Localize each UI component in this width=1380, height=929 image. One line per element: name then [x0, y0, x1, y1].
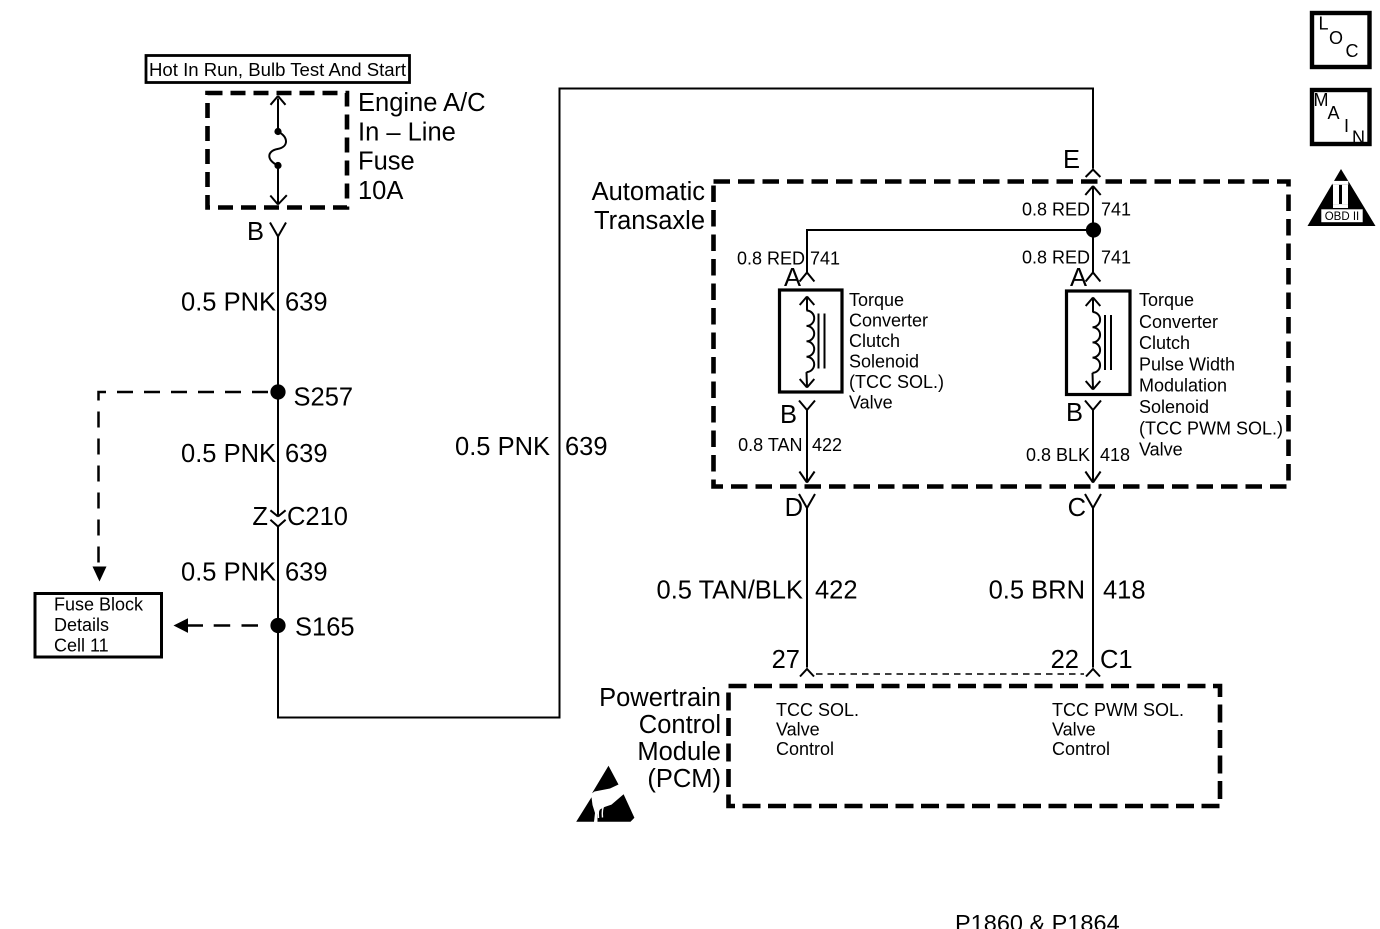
left solenoid pin A male connector — [800, 273, 815, 282]
svg-text:D: D — [785, 494, 803, 522]
svg-text:639: 639 — [565, 433, 608, 461]
svg-text:639: 639 — [285, 440, 328, 468]
svg-text:422: 422 — [812, 435, 842, 455]
svg-text:0.5 BRN: 0.5 BRN — [989, 577, 1085, 605]
svg-text:C: C — [1068, 494, 1086, 522]
MAIN legend icon — [1312, 90, 1370, 148]
svg-text:0.5 PNK: 0.5 PNK — [181, 440, 276, 468]
fuse value label: Engine A/C In-Line Fuse 10A — [358, 89, 486, 205]
TCC PWM solenoid coil L2 (box) — [1067, 291, 1131, 395]
wire: D down to PCM pin 27 (0.5 TAN/BLK 422) — [806, 508, 808, 668]
svg-text:B: B — [780, 401, 797, 429]
svg-text:0.8 RED: 0.8 RED — [1022, 200, 1090, 220]
PCM connector face dashed line — [816, 673, 1084, 675]
svg-text:0.5 PNK: 0.5 PNK — [181, 559, 276, 587]
svg-text:Hot In Run, Bulb Test And Star: Hot In Run, Bulb Test And Start — [149, 59, 407, 80]
svg-text:Powertrain: Powertrain — [599, 684, 721, 712]
svg-text:Control: Control — [639, 711, 721, 739]
wire: E into transaxle down to junction — [1085, 186, 1100, 272]
svg-text:Z: Z — [252, 503, 268, 531]
svg-text:L: L — [1319, 14, 1329, 34]
svg-text:TCC PWM SOL.: TCC PWM SOL. — [1052, 700, 1184, 720]
svg-text:741: 741 — [1101, 200, 1131, 220]
svg-text:Control: Control — [1052, 739, 1110, 759]
right solenoid pin B female connector — [1085, 401, 1101, 411]
svg-text:0.8 BLK: 0.8 BLK — [1026, 445, 1090, 465]
svg-text:Solenoid: Solenoid — [1139, 397, 1209, 417]
svg-text:Valve: Valve — [1052, 720, 1096, 740]
wire: branch from junction to left solenoid — [807, 230, 1093, 272]
TCC PWM solenoid coil element — [1086, 298, 1111, 390]
PCM name label — [599, 684, 721, 793]
svg-text:M: M — [1314, 90, 1329, 110]
svg-text:741: 741 — [810, 249, 840, 269]
svg-text:422: 422 — [815, 577, 858, 605]
svg-text:0.8 TAN: 0.8 TAN — [738, 435, 802, 455]
svg-text:639: 639 — [285, 559, 328, 587]
svg-text:S257: S257 — [294, 384, 354, 412]
PCM pin 27 connector — [800, 669, 814, 677]
svg-text:Cell 11: Cell 11 — [54, 636, 109, 656]
svg-text:Details: Details — [54, 615, 109, 635]
svg-text:(TCC PWM SOL.): (TCC PWM SOL.) — [1139, 418, 1283, 438]
pin D female connector — [799, 494, 815, 508]
fuse F1 element — [269, 96, 286, 205]
PCM input label: TCC PWM SOL. Valve Control — [1052, 700, 1184, 759]
junction node (splice) — [1086, 222, 1101, 237]
svg-text:Pulse Width: Pulse Width — [1139, 354, 1235, 374]
svg-text:Fuse: Fuse — [358, 148, 415, 176]
wire: long 0.5 PNK 639 feed from S165 around to transaxle pin E — [278, 89, 1093, 718]
svg-text:418: 418 — [1103, 577, 1146, 605]
TCC solenoid name label — [849, 290, 944, 413]
svg-text:I: I — [1344, 116, 1349, 136]
svg-text:N: N — [1352, 128, 1365, 148]
splice S165 — [270, 618, 285, 633]
svg-text:Modulation: Modulation — [1139, 376, 1227, 396]
svg-text:E: E — [1063, 146, 1080, 174]
svg-text:741: 741 — [1101, 248, 1131, 268]
svg-text:0.5 PNK: 0.5 PNK — [455, 433, 550, 461]
svg-text:Valve: Valve — [849, 393, 893, 413]
svg-text:Module: Module — [637, 738, 721, 766]
feed label box: Hot In Run, Bulb Test And Start — [146, 56, 410, 83]
svg-text:0.5 TAN/BLK: 0.5 TAN/BLK — [657, 577, 803, 605]
svg-text:Engine A/C: Engine A/C — [358, 89, 486, 117]
pin B female connector — [270, 223, 286, 237]
svg-text:Clutch: Clutch — [1139, 333, 1190, 353]
svg-text:In – Line: In – Line — [358, 118, 456, 146]
svg-text:Converter: Converter — [849, 311, 928, 331]
svg-text:A: A — [1070, 264, 1087, 292]
PCM dashed enclosure — [729, 686, 1221, 806]
svg-text:B: B — [247, 218, 264, 246]
TCC PWM solenoid name label — [1139, 290, 1283, 460]
left solenoid pin B female connector — [799, 401, 815, 411]
svg-text:27: 27 — [772, 646, 800, 674]
connector C210 pin Z — [252, 503, 348, 531]
svg-text:Automatic: Automatic — [592, 178, 706, 206]
svg-text:C: C — [1346, 41, 1359, 61]
svg-text:C210: C210 — [287, 503, 348, 531]
TCC solenoid coil element — [800, 297, 825, 388]
svg-text:Solenoid: Solenoid — [849, 352, 919, 372]
wire: left solenoid B down (0.8 TAN 422) — [799, 410, 814, 483]
svg-text:Clutch: Clutch — [849, 331, 900, 351]
svg-text:C1: C1 — [1100, 646, 1133, 674]
svg-text:OBD II: OBD II — [1325, 211, 1360, 223]
svg-text:Valve: Valve — [776, 720, 820, 740]
svg-text:TCC SOL.: TCC SOL. — [776, 700, 859, 720]
wire: right solenoid B down (0.8 BLK 418) — [1085, 410, 1100, 483]
svg-text:Valve: Valve — [1139, 440, 1183, 460]
svg-text:Converter: Converter — [1139, 312, 1218, 332]
svg-text:Torque: Torque — [1139, 290, 1194, 310]
ESD sensitivity icon (triangle with hand) — [576, 766, 634, 822]
dashed reference arrow from S165 to Fuse Block Details — [174, 618, 259, 633]
dashed reference arrow from S257 to Fuse Block Details — [93, 392, 269, 582]
svg-text:O: O — [1329, 28, 1343, 48]
svg-text:10A: 10A — [358, 177, 403, 205]
svg-text:Torque: Torque — [849, 290, 904, 310]
wire: C210 to S165 and down — [277, 527, 279, 719]
svg-text:A: A — [784, 264, 801, 292]
svg-text:639: 639 — [285, 289, 328, 317]
svg-text:Control: Control — [776, 739, 834, 759]
LOC legend icon — [1312, 13, 1370, 67]
right solenoid pin A male connector — [1086, 273, 1101, 282]
fuse F1 dashed enclosure — [208, 93, 348, 208]
OBD II legend icon — [1308, 169, 1376, 226]
TCC solenoid coil L1 (box) — [780, 290, 843, 392]
svg-text:(PCM): (PCM) — [647, 765, 721, 793]
reference box: Fuse Block Details Cell 11 — [35, 594, 162, 658]
PCM pin 22 connector — [1086, 669, 1100, 677]
svg-text:Transaxle: Transaxle — [594, 207, 705, 235]
pin C female connector — [1085, 494, 1101, 508]
svg-text:(TCC SOL.): (TCC SOL.) — [849, 372, 944, 392]
svg-text:22: 22 — [1051, 646, 1079, 674]
svg-text:B: B — [1066, 399, 1083, 427]
pin E male connector — [1086, 170, 1101, 178]
svg-text:S165: S165 — [295, 614, 355, 642]
automatic transaxle dashed enclosure — [714, 182, 1289, 487]
svg-text:0.5 PNK: 0.5 PNK — [181, 289, 276, 317]
svg-text:Fuse Block: Fuse Block — [54, 595, 144, 615]
svg-text:A: A — [1328, 103, 1340, 123]
wire: fuse B to connector C210 (0.5 PNK 639) — [277, 237, 279, 516]
splice S257 — [270, 384, 285, 399]
svg-text:418: 418 — [1100, 445, 1130, 465]
wire: C down to PCM pin 22 (0.5 BRN 418) — [1092, 508, 1094, 668]
PCM input label: TCC SOL. Valve Control — [776, 700, 859, 759]
svg-text:P1860 & P1864: P1860 & P1864 — [955, 910, 1120, 929]
